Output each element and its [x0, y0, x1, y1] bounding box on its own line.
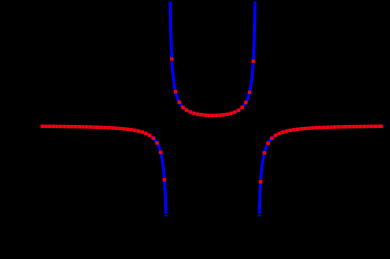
curve outer-right branch (blue line) [259, 126, 383, 214]
red square data-point markers [41, 57, 383, 183]
clipped line dash at bottom of right asymptote [258, 215, 261, 217]
curve outer-left branch (blue line) [41, 126, 166, 214]
clipped line dot at far right end [384, 125, 385, 126]
curve middle branch (blue line) [170, 2, 255, 116]
clipped line dash at bottom of left asymptote [164, 215, 167, 217]
